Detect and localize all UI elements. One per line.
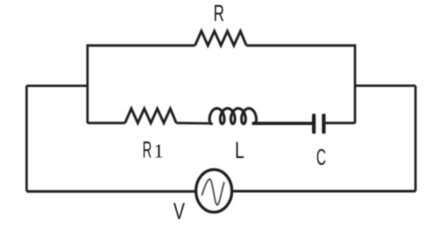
capacitor C plate right [322, 114, 326, 134]
resistor R1 [125, 109, 176, 123]
resistor R [195, 31, 246, 45]
AC source sine wave [202, 179, 224, 205]
wire bottom right segment [232, 190, 415, 193]
wire from C to right vertical [326, 122, 356, 124]
inductor L [210, 108, 257, 123]
wire middle branch left stub [88, 122, 126, 124]
wire left connector [27, 85, 88, 87]
capacitor C plate left [312, 114, 316, 134]
svg-text:C: C [316, 144, 326, 170]
svg-text:R: R [143, 137, 152, 163]
svg-text:1: 1 [154, 141, 164, 163]
wire right connector [355, 84, 416, 86]
svg-text:L: L [235, 137, 245, 163]
wire top-right inner rectangle segment [246, 46, 355, 124]
wire outer left vertical [25, 86, 27, 192]
svg-text:R: R [214, 0, 225, 26]
wire top-left inner rectangle segment [88, 46, 196, 124]
wire between R1 and L [176, 122, 212, 125]
AC source V circle [196, 170, 232, 213]
wire outer right vertical [414, 86, 416, 192]
wire bottom left segment [27, 190, 196, 193]
wire between L and C (thick) [252, 122, 312, 125]
svg-text:V: V [173, 198, 185, 223]
